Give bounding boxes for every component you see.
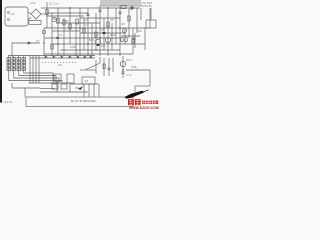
svg-text:IC1: IC1 [58, 33, 63, 37]
svg-text:470u: 470u [136, 29, 142, 33]
svg-text:100k: 100k [70, 45, 76, 49]
svg-text:4.5V: 4.5V [30, 1, 36, 5]
svg-text:R3: R3 [65, 19, 69, 23]
svg-text:R1: R1 [53, 17, 57, 21]
svg-text:BG2: BG2 [110, 33, 116, 37]
svg-text:AC: AC [11, 12, 15, 16]
svg-text:C1 2.2u: C1 2.2u [49, 2, 59, 6]
svg-text:4.7u: 4.7u [126, 73, 132, 77]
svg-text:PUT 0.3A: PUT 0.3A [141, 5, 152, 8]
svg-text:9014: 9014 [126, 58, 132, 62]
svg-text:10k: 10k [101, 44, 106, 48]
svg-text:C6: C6 [121, 22, 125, 26]
svg-text:C3: C3 [84, 18, 88, 22]
svg-text:X1: X1 [36, 39, 40, 43]
svg-text:WWW.DZDIY.COM: WWW.DZDIY.COM [129, 106, 159, 110]
svg-text:100k: 100k [131, 65, 137, 69]
svg-text:BG1: BG1 [89, 38, 95, 42]
svg-text:C7: C7 [122, 29, 126, 33]
svg-text:C4: C4 [85, 23, 89, 27]
svg-text:BL-327 IR RECEIVER: BL-327 IR RECEIVER [71, 100, 96, 103]
svg-text:mini-19: mini-19 [3, 100, 13, 104]
svg-text:IC3: IC3 [84, 79, 89, 83]
svg-text:R9: R9 [110, 18, 114, 22]
svg-text:IC2: IC2 [58, 63, 63, 67]
